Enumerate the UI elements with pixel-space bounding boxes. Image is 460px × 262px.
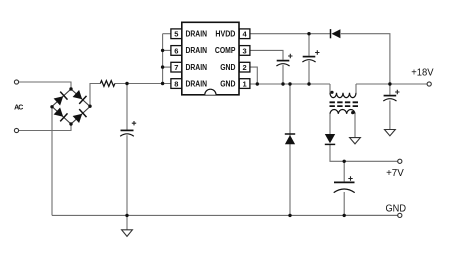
wire: bridge right vertex up to resistor — [90, 84, 100, 107]
bridge rectifier outline — [52, 89, 90, 124]
AC input terminal top — [14, 80, 18, 84]
wire: ground stem at C1 — [126, 215, 128, 229]
svg-text:+7V: +7V — [386, 168, 404, 179]
wire: AC bottom terminal to bridge bottom — [19, 124, 71, 131]
pin 6 box — [171, 46, 182, 56]
wire: C2 stem bottom — [282, 65, 284, 84]
pin 1 box — [239, 79, 250, 89]
svg-text:2: 2 — [243, 63, 247, 72]
node: +7V rail at C5 — [343, 160, 346, 163]
wire: AC top terminal to bridge top — [19, 82, 71, 89]
wire: bottom ground rail — [52, 214, 398, 216]
ground symbol (secondary return) — [350, 138, 361, 144]
node: C3 at pin1 rail — [307, 82, 310, 85]
node: bridge bottom vertex — [69, 122, 72, 125]
bridge diode D1 — [54, 92, 68, 106]
transformer core — [330, 102, 359, 106]
wire: C5 stem bottom — [343, 192, 345, 215]
resistor R1 — [100, 81, 115, 87]
svg-text:GND: GND — [220, 63, 235, 72]
C4 polarity + — [395, 90, 399, 94]
node: +18V rail at C4 — [388, 82, 391, 85]
svg-text:1: 1 — [243, 79, 247, 88]
wire: pin 2 GND down to pin1 rail — [250, 67, 257, 84]
wire: C1 stem bottom — [126, 135, 128, 215]
+7V output terminal — [398, 159, 402, 163]
AC input terminal bottom — [14, 128, 18, 132]
svg-text:DRAIN: DRAIN — [186, 79, 208, 88]
primary phase dot — [330, 91, 333, 94]
transformer T1 primary winding — [330, 93, 356, 98]
svg-text:DRAIN: DRAIN — [186, 63, 208, 72]
node: freewheel at ground rail — [288, 214, 291, 217]
pin 2 box — [239, 62, 250, 72]
svg-text:+18V: +18V — [411, 68, 434, 79]
secondary phase dot — [351, 111, 354, 114]
svg-text:3: 3 — [243, 46, 247, 55]
C2 polarity + — [288, 54, 292, 58]
capacitor C5 (+7V output) — [334, 182, 355, 192]
svg-text:GND: GND — [220, 79, 235, 88]
svg-text:AC: AC — [14, 105, 23, 112]
wire: C1 stem top — [126, 84, 128, 130]
svg-text:8: 8 — [174, 79, 178, 88]
bridge diode D4 — [73, 109, 87, 123]
svg-text:GND: GND — [386, 203, 407, 214]
node: bus at pin 8 — [161, 82, 164, 85]
bridge diode D2 — [73, 90, 87, 104]
wire: C4 stem top — [389, 84, 391, 95]
pin 4 box — [239, 29, 250, 39]
wire: stub to pin 6 — [163, 49, 171, 51]
wire: pin 4 HVDD to diode D5 — [250, 33, 330, 35]
node: bus at pin 6 — [161, 49, 164, 52]
wire: IC left pin bus — [162, 34, 164, 84]
svg-text:7: 7 — [174, 63, 178, 72]
wire: resistor to C1 junction to IC bus — [115, 83, 171, 85]
node: freewheel branch at pin1 rail — [288, 82, 291, 85]
wire: bridge left vertex down to ground rail — [51, 107, 53, 215]
capacitor C3 (HVDD) — [302, 57, 315, 62]
wire: C5 stem top — [343, 161, 345, 181]
wire: D6 to +7V rail — [330, 144, 398, 161]
node: R1/C1 junction — [125, 82, 128, 85]
svg-text:HVDD: HVDD — [215, 30, 235, 39]
bridge diode D3 — [54, 108, 68, 122]
svg-text:DRAIN: DRAIN — [186, 46, 208, 55]
node: pin4/C3 junction — [307, 32, 310, 35]
+18V output terminal — [427, 82, 431, 86]
wire: transformer primary right riser — [355, 84, 357, 93]
capacitor C4 (+18V output) — [383, 96, 396, 101]
pin 8 box — [171, 79, 182, 89]
svg-text:DRAIN: DRAIN — [186, 30, 208, 39]
transformer T1 secondary winding — [330, 110, 355, 114]
ground symbol (+18V cap) — [385, 130, 396, 136]
wire: stub to pin 7 — [163, 66, 171, 68]
capacitor C2 (COMP) — [276, 61, 289, 66]
wire: secondary left drop to D6 — [329, 114, 331, 134]
wire: +18V rail — [356, 83, 427, 85]
wire: C3 stem bottom — [308, 61, 310, 84]
wire: secondary right drop to ground — [354, 114, 356, 138]
diode D5 (HVDD to +18V, cathode left) — [331, 29, 341, 38]
node: C2 at pin1 rail — [281, 82, 284, 85]
node: C1 at ground rail — [125, 214, 128, 217]
IC notch — [205, 89, 216, 95]
wire: stub to pin 5 — [163, 33, 171, 35]
pin 5 box — [171, 29, 182, 39]
GND output terminal — [398, 213, 402, 217]
wire: freewheel diode branch vertical — [289, 84, 291, 215]
node: pin2 joins pin1 rail — [256, 82, 259, 85]
capacitor C1 (input bulk) — [120, 130, 134, 136]
C3 polarity + — [315, 50, 319, 54]
ground symbol (primary) — [122, 230, 133, 237]
node: C5 at ground rail — [343, 214, 346, 217]
pin 3 box — [239, 46, 250, 56]
wire: C4 stem to ground — [389, 101, 391, 130]
freewheel diode D6 (cathode up) — [285, 134, 295, 144]
wire: diode D5 to +18V corner — [341, 34, 390, 84]
wire: C3 stem top — [308, 34, 310, 56]
node: bridge top vertex — [69, 87, 72, 90]
wire: transformer primary left drop — [329, 84, 331, 93]
pin 7 box — [171, 62, 182, 72]
C1 polarity + — [132, 121, 136, 125]
node: bus at pin 7 — [161, 65, 164, 68]
wire: pin 3 COMP to C2 — [250, 50, 283, 59]
svg-text:COMP: COMP — [215, 46, 236, 55]
wire: pin 1 GND rail to transformer — [250, 83, 330, 85]
node: bridge left vertex — [50, 105, 53, 108]
svg-text:6: 6 — [174, 46, 178, 55]
C5 polarity + — [348, 176, 352, 180]
op IC U1 body — [182, 22, 239, 95]
svg-text:5: 5 — [174, 30, 178, 39]
wire: GND rail stub to terminal — [344, 214, 398, 216]
diode D7 (secondary to +7V, cathode down) — [325, 134, 335, 144]
node: bridge right vertex — [88, 105, 91, 108]
